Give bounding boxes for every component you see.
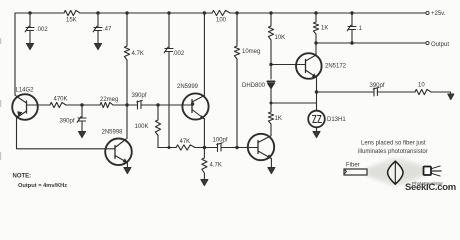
scan edge artifacts — [0, 38, 2, 160]
ground below D13H1 — [313, 132, 320, 138]
svg-text:illuminates phototransistor: illuminates phototransistor — [358, 149, 428, 155]
resistor 15K — [64, 10, 80, 15]
svg-text:SeekIC.com: SeekIC.com — [405, 182, 456, 193]
wire output transistor emitter to ground — [270, 159, 272, 168]
wire 100K bottom to 47K — [158, 147, 176, 149]
illustration captions — [346, 141, 428, 169]
transistor 2N5999 — [182, 93, 208, 119]
diode DHD800 — [267, 80, 275, 82]
capacitor .002 left shunt — [25, 13, 34, 43]
transistor 2N5172 — [296, 53, 322, 79]
capacitor 390pf feedback shunt — [77, 105, 86, 131]
resistor 10meg — [234, 13, 239, 148]
svg-text:.002: .002 — [173, 51, 185, 57]
svg-text:Output = 4mv/KHz: Output = 4mv/KHz — [18, 183, 67, 189]
resistor 1K upper — [313, 13, 318, 55]
capacitor 100pf — [217, 143, 223, 152]
wire 22meg to 390pf series cap — [113, 104, 138, 106]
ground below 390pf — [79, 132, 86, 138]
wire emitter node to D13H1 branch — [271, 102, 317, 104]
svg-text:.47: .47 — [103, 27, 112, 33]
svg-text:47K: 47K — [180, 139, 191, 145]
resistor 4.7K upper — [124, 13, 129, 139]
capacitor 390pf snubber — [373, 87, 379, 96]
illustration: lens — [388, 161, 403, 184]
wire 100pf to output transistor base — [221, 147, 248, 149]
capacitor 390pf series — [137, 100, 143, 109]
phototransistor L14G2 — [12, 94, 38, 120]
wire D13H1 to ground — [316, 127, 318, 131]
wire 47K to emitter node — [195, 147, 218, 149]
terminal Output — [426, 41, 429, 44]
transistor 2N5998 — [105, 139, 132, 166]
svg-text:2N5998: 2N5998 — [102, 130, 124, 136]
resistor 10K — [268, 13, 273, 79]
ground below .002 — [27, 44, 34, 50]
wire 2N5999 emitter vertical — [203, 119, 205, 148]
svg-text:100K: 100K — [135, 124, 149, 130]
svg-text:15K: 15K — [66, 18, 77, 24]
svg-text:L14G2: L14G2 — [16, 88, 35, 94]
ground below 4.7K — [201, 180, 208, 186]
svg-text:NOTE:: NOTE: — [13, 174, 32, 180]
svg-text:390pf: 390pf — [370, 83, 385, 89]
resistor 10 — [415, 89, 431, 94]
resistor 1K lower — [268, 103, 273, 136]
svg-text:100: 100 — [216, 18, 227, 24]
resistor 47K — [176, 145, 195, 150]
svg-text:1K: 1K — [321, 26, 328, 32]
component value labels — [13, 11, 450, 189]
svg-text:10meg: 10meg — [242, 49, 260, 55]
wire left vertical from rail to L14G2 collector — [14, 13, 16, 95]
transistor output stage (unmarked) — [248, 134, 274, 160]
svg-text:10K: 10K — [275, 35, 286, 41]
capacitor .47 shunt — [93, 13, 102, 43]
svg-text:Lens placed so fiber just: Lens placed so fiber just — [361, 141, 426, 147]
svg-text:22meg: 22meg — [100, 97, 118, 103]
svg-text:2N5172: 2N5172 — [325, 64, 347, 70]
svg-text:Fiber: Fiber — [346, 163, 360, 169]
svg-text:D13H1: D13H1 — [327, 117, 346, 123]
wire output rail — [316, 42, 426, 44]
ground below output transistor — [268, 168, 275, 174]
resistor 4.7K lower — [202, 148, 207, 180]
svg-text:Output: Output — [431, 42, 449, 48]
ground below 2N5998 — [124, 168, 131, 174]
svg-text:1K: 1K — [275, 116, 282, 122]
svg-text:.1: .1 — [357, 26, 363, 32]
svg-text:4.7K: 4.7K — [210, 163, 222, 169]
wire series cap to 2N5999 base — [141, 104, 183, 106]
ground right end of snubber — [448, 94, 454, 100]
wire 2N5998 emitter to ground — [126, 163, 128, 168]
resistor 470K — [50, 102, 66, 107]
svg-text:100pf: 100pf — [213, 138, 228, 144]
svg-text:470K: 470K — [54, 97, 68, 103]
svg-text:4.7K: 4.7K — [132, 51, 144, 57]
wire signal midline: L14G2 base to 470K to node — [38, 104, 100, 106]
wire L14G2 emitter down and bottom run to 2N5998 base — [17, 117, 106, 149]
wire 2N5172 emitter down to D13H1 — [316, 79, 318, 111]
resistor 100 — [212, 10, 230, 15]
svg-text:390pf: 390pf — [60, 119, 75, 125]
svg-text:.002: .002 — [36, 27, 48, 33]
wire snubber branch — [317, 92, 451, 94]
svg-text:DHD800: DHD800 — [242, 83, 266, 89]
wire 2N5999 collector vertical — [203, 13, 205, 96]
capacitor .1 — [347, 13, 356, 43]
svg-text:2N5999: 2N5999 — [177, 84, 199, 90]
svg-text:390pf: 390pf — [132, 93, 147, 99]
wire top supply rail — [15, 12, 426, 14]
capacitor .002 second — [164, 13, 173, 148]
ground below .47 — [95, 44, 102, 50]
illustration: fiber — [344, 169, 367, 175]
wire 2N5172 base from 10K line — [271, 64, 296, 66]
illustration: phototransistor package — [424, 166, 442, 176]
terminal +25v — [426, 11, 429, 14]
resistor 100K — [155, 105, 160, 148]
thyristor D13H1 — [308, 111, 325, 128]
illustration: light beam shading — [366, 158, 425, 186]
resistor 22meg — [100, 102, 113, 107]
svg-text:+25v.: +25v. — [431, 11, 446, 17]
svg-text:10: 10 — [418, 83, 425, 89]
